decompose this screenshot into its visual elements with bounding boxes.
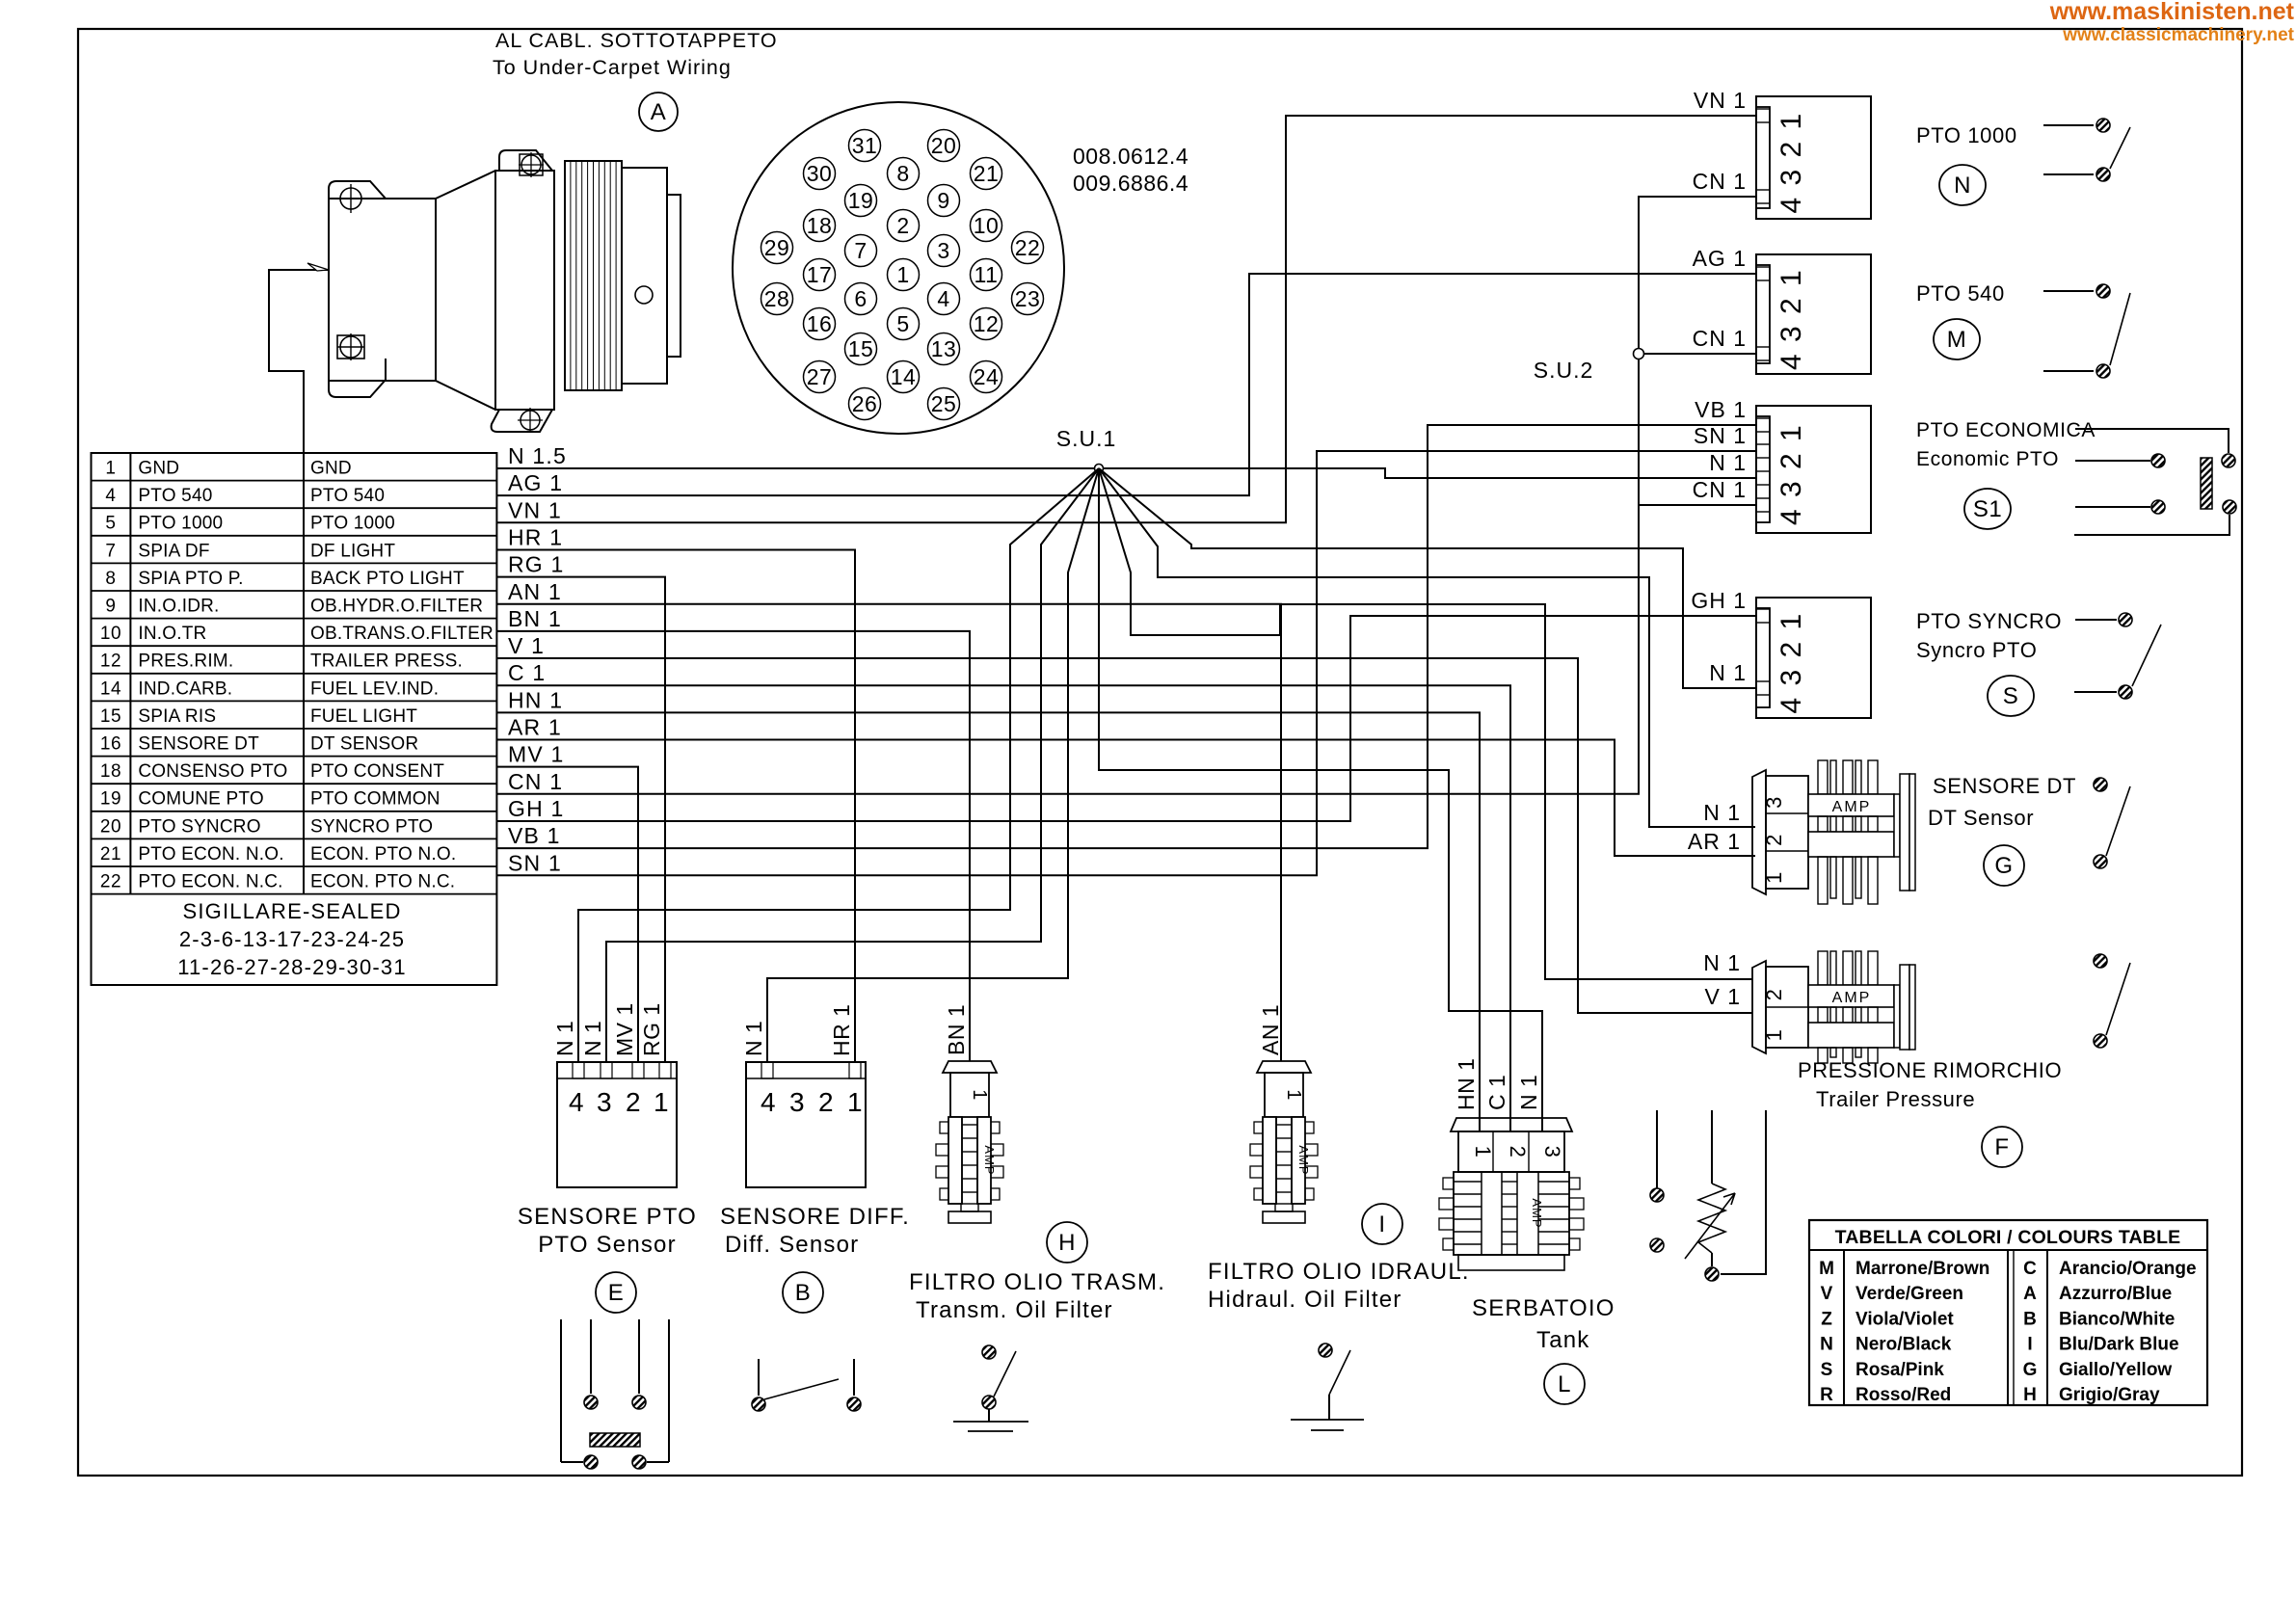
pin table row lines	[92, 480, 497, 482]
AMP connector flange	[1752, 961, 1766, 1053]
svg-text:V 1: V 1	[508, 633, 545, 658]
svg-text:Bianco/White: Bianco/White	[2059, 1309, 2175, 1329]
E pin tab at x=690	[659, 1062, 671, 1078]
svg-text:AMP: AMP	[1832, 799, 1872, 815]
svg-text:2: 2	[1506, 1146, 1530, 1158]
svg-text:SENSORE PTO: SENSORE PTO	[518, 1204, 697, 1230]
svg-text:Grigio/Gray: Grigio/Gray	[2059, 1385, 2160, 1405]
svg-text:3: 3	[1540, 1146, 1564, 1158]
svg-text:L: L	[1558, 1371, 1571, 1397]
diff sensor connector B box	[746, 1062, 866, 1187]
tank L centre fins	[1454, 1181, 1482, 1183]
svg-text:29: 29	[764, 235, 790, 260]
wire AR 1 to DT sensor G pin 1	[496, 740, 1755, 857]
svg-text:12: 12	[974, 311, 1000, 336]
wire N branch to diff sensor B pin 4	[767, 468, 1099, 1062]
node A label circle	[639, 93, 678, 131]
connector N box PTO 1000	[1756, 96, 1871, 219]
svg-text:S.U.2: S.U.2	[1534, 358, 1594, 383]
vertical AMP right plate	[977, 1117, 991, 1204]
connector A knurled ring	[565, 161, 622, 390]
pin 29	[761, 232, 793, 264]
AMP connector pin housing	[1766, 776, 1808, 889]
wire N branch to DT sensor G pin 2	[1099, 468, 1755, 827]
svg-text:3: 3	[597, 1087, 612, 1117]
tank connector L flange	[1451, 1118, 1572, 1131]
svg-text:15: 15	[848, 336, 874, 361]
pin 26	[849, 388, 881, 420]
svg-text:DF LIGHT: DF LIGHT	[310, 541, 395, 561]
wire V 1 to trailer pressure F pin 1	[496, 658, 1752, 1013]
vertical AMP right plate	[1292, 1117, 1305, 1204]
svg-text:SPIA PTO P.: SPIA PTO P.	[138, 569, 243, 589]
svg-text:A: A	[2023, 1284, 2037, 1304]
AMP lower plate	[1808, 1023, 1894, 1048]
connector S pin tab at wire N 1	[1756, 680, 1770, 682]
svg-text:GND: GND	[138, 459, 179, 479]
wire AN 1 to hydraulic oil filter I	[496, 604, 1281, 1061]
vertical AMP left plate	[1263, 1117, 1276, 1204]
connector A end cap	[667, 195, 681, 357]
connector S1 box PTO ECONOMICA	[1756, 406, 1871, 533]
vertical AMP centre fins	[1276, 1124, 1292, 1126]
svg-text:PTO SYNCRO: PTO SYNCRO	[138, 816, 260, 837]
svg-text:HR 1: HR 1	[829, 1004, 854, 1056]
svg-text:8: 8	[896, 161, 909, 186]
tank L slot plate	[1481, 1172, 1482, 1255]
svg-text:Blu/Dark Blue: Blu/Dark Blue	[2059, 1335, 2179, 1355]
svg-text:IN.O.IDR.: IN.O.IDR.	[138, 597, 219, 617]
svg-text:C: C	[2023, 1259, 2037, 1279]
wire AG 1 to connector M pin 1	[496, 274, 1756, 495]
svg-text:2-3-6-13-17-23-24-25: 2-3-6-13-17-23-24-25	[179, 927, 405, 951]
wire CN 1 branch to connector S1 pin 4	[1639, 504, 1755, 506]
svg-text:N 1: N 1	[1516, 1075, 1541, 1110]
svg-text:N: N	[1820, 1335, 1833, 1355]
svg-text:22: 22	[100, 872, 121, 892]
svg-text:AN 1: AN 1	[1258, 1004, 1283, 1055]
tank level sender wire	[1711, 1110, 1713, 1184]
colours table frame	[1809, 1220, 2207, 1405]
svg-text:SYNCRO PTO: SYNCRO PTO	[310, 816, 433, 837]
svg-text:PTO COMMON: PTO COMMON	[310, 789, 441, 810]
svg-text:PTO 1000: PTO 1000	[310, 514, 395, 534]
svg-text:AR 1: AR 1	[508, 715, 562, 740]
svg-text:TABELLA COLORI / COLOURS TABLE: TABELLA COLORI / COLOURS TABLE	[1835, 1227, 2181, 1248]
svg-text:DT SENSOR: DT SENSOR	[310, 734, 418, 755]
svg-text:N 1: N 1	[1709, 450, 1747, 475]
svg-text:N 1: N 1	[580, 1021, 605, 1056]
pin 20	[928, 130, 960, 162]
connector S1 pin strip	[1756, 416, 1770, 522]
svg-text:11: 11	[974, 262, 999, 287]
wire CN 1 branch to connector M pin 4	[1639, 353, 1756, 355]
AMP connector end plates	[1894, 985, 1900, 1048]
switch for DT sensor (G)	[2094, 778, 2107, 791]
svg-text:VN 1: VN 1	[1694, 88, 1747, 113]
svg-text:20: 20	[100, 816, 121, 837]
connector A rear block	[495, 171, 554, 410]
diff sensor B switch symbol	[758, 1359, 760, 1396]
E pin tab at x=600	[573, 1062, 584, 1078]
connector A rear bottom lug	[492, 410, 552, 432]
svg-text:14: 14	[100, 678, 121, 699]
B pin tab at x=796	[761, 1062, 773, 1078]
svg-text:Rosa/Pink: Rosa/Pink	[1855, 1360, 1944, 1380]
svg-text:1: 1	[896, 262, 909, 287]
svg-text:Tank: Tank	[1536, 1327, 1590, 1353]
svg-text:9: 9	[105, 597, 116, 617]
pin 11	[971, 259, 1002, 291]
colours table column lines	[1843, 1250, 1845, 1405]
svg-text:AG 1: AG 1	[508, 470, 563, 495]
svg-text:2: 2	[1762, 989, 1786, 1001]
connector M pin tab at wire CN 1	[1756, 346, 1770, 348]
svg-text:www.classicmachinery.net: www.classicmachinery.net	[2062, 25, 2294, 45]
pin 4	[928, 283, 960, 315]
tank connector L comb body	[1454, 1172, 1569, 1255]
svg-text:CN 1: CN 1	[508, 769, 563, 794]
svg-text:15: 15	[100, 706, 121, 727]
svg-text:CN 1: CN 1	[1693, 169, 1747, 194]
svg-text:5: 5	[896, 311, 909, 336]
svg-text:CONSENSO PTO: CONSENSO PTO	[138, 761, 287, 782]
svg-text:009.6886.4: 009.6886.4	[1073, 171, 1188, 196]
svg-text:PTO ECON. N.O.: PTO ECON. N.O.	[138, 844, 283, 865]
svg-text:RG 1: RG 1	[508, 552, 564, 577]
wire N branch to trailer pressure F pin 2	[1099, 468, 1752, 979]
svg-text:N 1: N 1	[1703, 800, 1741, 825]
AMP lower plate	[1808, 832, 1894, 857]
svg-text:12: 12	[100, 652, 121, 672]
svg-text:I: I	[1378, 1211, 1385, 1237]
vertical AMP cap	[1257, 1061, 1311, 1073]
svg-text:4 3 2 1: 4 3 2 1	[1775, 112, 1807, 214]
connector N pin strip	[1756, 107, 1770, 208]
vertical AMP bottom plate	[1263, 1211, 1305, 1223]
pin 9	[928, 185, 960, 217]
AMP connector top teeth	[1818, 760, 1828, 794]
svg-text:Azzurro/Blue: Azzurro/Blue	[2059, 1284, 2172, 1304]
svg-text:FUEL LEV.IND.: FUEL LEV.IND.	[310, 678, 439, 699]
designator circle M	[1934, 319, 1980, 359]
svg-text:IN.O.TR: IN.O.TR	[138, 624, 206, 644]
svg-text:E: E	[608, 1280, 625, 1306]
svg-text:4 3 2 1: 4 3 2 1	[1775, 268, 1807, 370]
svg-text:4: 4	[761, 1087, 776, 1117]
svg-text:CN 1: CN 1	[1693, 477, 1747, 502]
svg-text:2: 2	[818, 1087, 834, 1117]
svg-text:S: S	[1821, 1360, 1833, 1380]
wire N 1.5 from table through S.U.1 to S1 pin 3	[496, 468, 1755, 478]
connector S1 pin tab at wire SN 1	[1756, 443, 1770, 445]
pin 16	[804, 308, 836, 340]
designator circle S1	[1964, 489, 2011, 529]
svg-text:SN 1: SN 1	[508, 850, 562, 875]
svg-text:1: 1	[969, 1089, 990, 1101]
switch S1 contact bar	[2201, 458, 2212, 509]
tank connector L pin housing	[1458, 1131, 1564, 1172]
svg-text:C 1: C 1	[1484, 1075, 1509, 1110]
svg-text:21: 21	[974, 161, 1000, 186]
svg-text:1: 1	[105, 459, 116, 479]
pin table column lines	[129, 453, 131, 894]
connector S1 pin tab at wire N 1	[1756, 470, 1770, 472]
pin 6	[845, 283, 877, 315]
pin 14	[888, 361, 920, 393]
connector A ring hole	[635, 286, 653, 304]
svg-text:SENSORE DT: SENSORE DT	[1933, 774, 2076, 798]
svg-text:28: 28	[764, 286, 790, 311]
node S.U.1	[1095, 465, 1104, 473]
pin 24	[971, 361, 1002, 393]
svg-text:2: 2	[1762, 834, 1786, 846]
svg-text:FILTRO OLIO IDRAUL.: FILTRO OLIO IDRAUL.	[1208, 1259, 1470, 1285]
AMP connector bottom teeth	[1818, 857, 1828, 904]
svg-text:H: H	[2023, 1385, 2037, 1405]
svg-text:M: M	[1947, 327, 1967, 353]
svg-text:HR 1: HR 1	[508, 524, 563, 549]
svg-text:IND.CARB.: IND.CARB.	[138, 678, 232, 699]
svg-text:PTO 540: PTO 540	[310, 486, 385, 506]
connector S1 pin tab at wire VB 1	[1756, 417, 1770, 419]
svg-text:008.0612.4: 008.0612.4	[1073, 144, 1188, 169]
svg-text:H: H	[1058, 1230, 1076, 1256]
svg-text:3: 3	[789, 1087, 805, 1117]
connector S box PTO SYNCRO	[1756, 598, 1871, 718]
svg-text:TRAILER PRESS.: TRAILER PRESS.	[310, 652, 463, 672]
tank circuit return wire	[1721, 1110, 1766, 1274]
wire VB 1 to connector S1 pin 1	[496, 425, 1755, 848]
AMP connector bottom teeth	[1818, 1048, 1828, 1063]
connector A transition cone	[436, 171, 495, 410]
connector A side view front shell	[329, 199, 436, 381]
PTO sensor E reed switch symbol	[560, 1319, 562, 1462]
vertical AMP cap	[943, 1061, 997, 1073]
connector A bottom lug screw	[337, 335, 364, 359]
svg-text:16: 16	[100, 734, 121, 755]
designator circle B	[783, 1272, 823, 1313]
svg-text:Transm. Oil Filter: Transm. Oil Filter	[916, 1297, 1113, 1323]
svg-text:10: 10	[974, 213, 1000, 238]
svg-text:9: 9	[937, 188, 949, 213]
svg-text:G: G	[1994, 853, 2013, 879]
connector A rear top lug	[499, 150, 552, 171]
svg-text:AMP: AMP	[982, 1145, 997, 1175]
svg-text:1: 1	[847, 1087, 863, 1117]
connector M pin tab at wire AG 1	[1756, 266, 1770, 268]
svg-text:Economic PTO: Economic PTO	[1916, 448, 2059, 470]
pin 19	[845, 185, 877, 217]
AMP connector middle teeth	[1818, 1007, 1828, 1023]
svg-text:21: 21	[100, 844, 121, 865]
svg-text:FILTRO OLIO TRASM.: FILTRO OLIO TRASM.	[909, 1269, 1165, 1295]
svg-text:ECON. PTO N.C.: ECON. PTO N.C.	[310, 872, 455, 892]
colours table title separator	[1809, 1249, 2207, 1251]
wire N branch to PTO sensor E pin 4	[578, 468, 1099, 1062]
svg-text:PTO SYNCRO: PTO SYNCRO	[1916, 609, 2062, 633]
svg-text:14: 14	[891, 364, 917, 389]
connector A top lug screw	[340, 188, 361, 209]
designator circle E	[596, 1272, 636, 1313]
svg-text:OB.HYDR.O.FILTER: OB.HYDR.O.FILTER	[310, 597, 483, 617]
AMP connector end plates	[1894, 794, 1900, 857]
svg-text:To Under-Carpet Wiring: To Under-Carpet Wiring	[493, 56, 732, 79]
connector N pin tab at wire VN 1	[1756, 108, 1770, 110]
svg-text:G: G	[2023, 1360, 2038, 1380]
vertical AMP centre fins	[962, 1124, 977, 1126]
svg-text:Viola/Violet: Viola/Violet	[1855, 1309, 1954, 1329]
AMP connector pin housing	[1766, 967, 1808, 1048]
ground symbol at H	[953, 1421, 1028, 1423]
svg-text:PTO CONSENT: PTO CONSENT	[310, 761, 444, 782]
pin 22	[1012, 232, 1044, 264]
tank connector L bottom plate	[1458, 1255, 1564, 1270]
svg-text:SIGILLARE-SEALED: SIGILLARE-SEALED	[182, 899, 401, 923]
pin 15	[845, 333, 877, 365]
svg-text:PRESSIONE RIMORCHIO: PRESSIONE RIMORCHIO	[1798, 1058, 2062, 1082]
svg-text:S.U.1: S.U.1	[1056, 426, 1117, 451]
designator circle I	[1362, 1204, 1402, 1244]
vertical AMP bottom stub	[961, 1204, 978, 1211]
designator circle N	[1939, 165, 1986, 205]
svg-text:10: 10	[100, 624, 121, 644]
designator circle S	[1988, 676, 2034, 716]
svg-text:VB 1: VB 1	[508, 823, 561, 848]
svg-text:31: 31	[852, 133, 878, 158]
connector A coupling ring	[622, 168, 667, 384]
svg-text:4: 4	[105, 486, 116, 506]
connector S pin strip	[1756, 608, 1770, 707]
svg-text:1: 1	[654, 1087, 669, 1117]
connector M pin strip	[1756, 265, 1770, 363]
svg-text:Giallo/Yellow: Giallo/Yellow	[2059, 1360, 2172, 1380]
AMP connector middle teeth	[1818, 816, 1828, 832]
svg-text:PTO 1000: PTO 1000	[1916, 123, 2017, 147]
wire RG 1 to PTO sensor E pin 1	[496, 577, 665, 1062]
svg-text:4 3 2 1: 4 3 2 1	[1775, 612, 1807, 714]
AMP label plate	[1808, 794, 1894, 816]
PTO sensor E pin strip line	[557, 1078, 677, 1079]
svg-text:Verde/Green: Verde/Green	[1855, 1284, 1963, 1304]
svg-text:4: 4	[937, 286, 949, 311]
svg-text:AMP: AMP	[1296, 1145, 1311, 1175]
wire BN 1 to transmission oil filter H	[496, 631, 970, 1061]
switch network for PTO ECONOMICA (S1)	[2075, 429, 2229, 453]
vertical AMP side teeth	[940, 1122, 950, 1133]
svg-text:11-26-27-28-29-30-31: 11-26-27-28-29-30-31	[177, 955, 407, 979]
svg-text:24: 24	[974, 364, 1000, 389]
svg-text:13: 13	[931, 336, 957, 361]
svg-text:17: 17	[807, 262, 833, 287]
svg-text:S1: S1	[1973, 496, 2002, 522]
pin 12	[971, 308, 1002, 340]
connector N pin tab at wire CN 1	[1756, 189, 1770, 191]
pin 21	[971, 158, 1002, 190]
wire GH 1 to connector S pin 1	[496, 616, 1756, 821]
wire HR 1 to diff sensor B	[496, 549, 855, 1062]
svg-text:3: 3	[937, 238, 949, 263]
svg-text:Nero/Black: Nero/Black	[1855, 1335, 1952, 1355]
pin 1	[888, 259, 920, 291]
wire C 1 to tank L pin 2	[496, 685, 1510, 1131]
svg-text:SENSORE DT: SENSORE DT	[138, 734, 259, 755]
svg-text:AL CABL. SOTTOTAPPETO: AL CABL. SOTTOTAPPETO	[495, 29, 778, 52]
pin table frame	[92, 453, 497, 985]
pin 28	[761, 283, 793, 315]
svg-text:PTO Sensor: PTO Sensor	[538, 1232, 677, 1258]
PTO sensor E resistive element	[590, 1433, 640, 1447]
svg-text:25: 25	[931, 391, 957, 416]
variable resistor arrow	[1685, 1193, 1735, 1259]
wire N branch to connector S pin 4	[1099, 468, 1756, 688]
diff sensor B pin strip line	[746, 1078, 866, 1079]
svg-text:V: V	[1821, 1284, 1833, 1304]
pin 5	[888, 308, 920, 340]
pin 17	[804, 259, 836, 291]
svg-text:16: 16	[807, 311, 833, 336]
svg-text:Marrone/Brown: Marrone/Brown	[1855, 1259, 1989, 1279]
svg-text:PTO 1000: PTO 1000	[138, 514, 223, 534]
svg-text:SN 1: SN 1	[1694, 423, 1747, 448]
AMP connector flange	[1752, 770, 1766, 894]
designator circle F	[1982, 1127, 2022, 1167]
svg-text:N 1: N 1	[552, 1021, 577, 1056]
svg-text:COMUNE PTO: COMUNE PTO	[138, 789, 263, 810]
svg-text:1: 1	[1283, 1089, 1304, 1101]
svg-text:SPIA RIS: SPIA RIS	[138, 706, 216, 727]
svg-text:4 3 2 1: 4 3 2 1	[1775, 423, 1807, 525]
svg-text:19: 19	[848, 188, 874, 213]
svg-text:PTO ECON. N.C.: PTO ECON. N.C.	[138, 872, 282, 892]
AMP connector top teeth	[1818, 951, 1828, 985]
tank L side teeth	[1443, 1178, 1454, 1189]
svg-text:N 1.5: N 1.5	[508, 443, 567, 468]
svg-text:Rosso/Red: Rosso/Red	[1855, 1385, 1951, 1405]
switch for PTO SYNCRO (S)	[2075, 619, 2117, 621]
connector A face view outer circle	[733, 102, 1064, 434]
svg-text:Hidraul. Oil Filter: Hidraul. Oil Filter	[1208, 1287, 1402, 1313]
AMP label plate	[1808, 985, 1894, 1007]
svg-text:PTO ECONOMICA: PTO ECONOMICA	[1916, 419, 2096, 441]
svg-text:4: 4	[569, 1087, 584, 1117]
pin 7	[845, 235, 877, 267]
connector S1 pin tab at wire CN 1	[1756, 497, 1770, 499]
svg-text:N 1: N 1	[741, 1021, 766, 1056]
svg-text:V 1: V 1	[1704, 984, 1741, 1009]
node S.U.2	[1634, 349, 1644, 359]
svg-text:SERBATOIO: SERBATOIO	[1472, 1295, 1615, 1321]
designator circle L	[1544, 1364, 1585, 1404]
svg-text:18: 18	[807, 213, 833, 238]
svg-text:Z: Z	[1821, 1309, 1832, 1329]
pin 31	[849, 130, 881, 162]
svg-text:F: F	[1994, 1134, 2009, 1160]
pin 3	[928, 235, 960, 267]
svg-text:ECON. PTO N.O.: ECON. PTO N.O.	[310, 844, 456, 865]
wire MV 1 to PTO sensor E pin 2	[496, 767, 638, 1062]
connector M box PTO 540	[1756, 254, 1871, 374]
svg-text:SPIA DF: SPIA DF	[138, 541, 209, 561]
svg-text:AR 1: AR 1	[1688, 829, 1741, 854]
svg-text:18: 18	[100, 761, 121, 782]
svg-text:7: 7	[105, 541, 116, 561]
svg-text:1: 1	[1471, 1146, 1495, 1158]
svg-text:5: 5	[105, 514, 116, 534]
svg-text:DT Sensor: DT Sensor	[1928, 806, 2034, 830]
svg-text:30: 30	[807, 161, 833, 186]
svg-text:BN 1: BN 1	[508, 606, 562, 631]
